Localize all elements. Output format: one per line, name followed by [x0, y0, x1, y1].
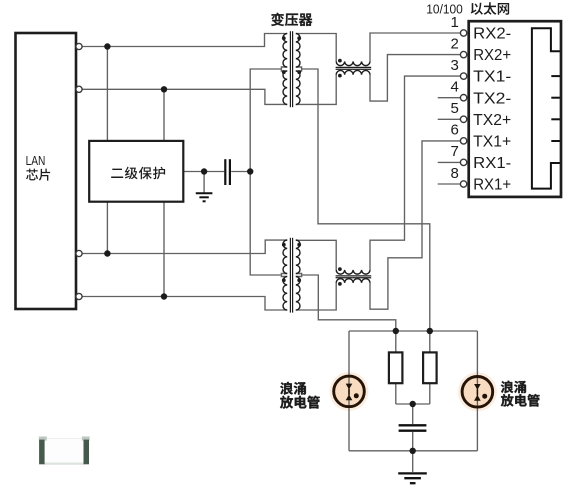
svg-text:2: 2 [450, 35, 458, 52]
svg-text:7: 7 [450, 143, 458, 160]
svg-text:4: 4 [450, 79, 458, 96]
svg-text:RX1+: RX1+ [473, 177, 511, 194]
svg-text:8: 8 [450, 165, 458, 182]
svg-text:RX2+: RX2+ [473, 47, 511, 64]
svg-text:LAN: LAN [26, 154, 46, 168]
svg-text:RX1-: RX1- [473, 155, 511, 172]
svg-text:TX1+: TX1+ [473, 134, 511, 151]
svg-text:3: 3 [450, 57, 458, 74]
svg-text:TX1-: TX1- [473, 69, 511, 86]
svg-text:5: 5 [450, 100, 458, 117]
svg-text:TX2+: TX2+ [473, 112, 511, 129]
svg-text:1: 1 [450, 14, 458, 31]
svg-text:RX2-: RX2- [473, 26, 511, 43]
svg-text:6: 6 [450, 122, 458, 139]
svg-text:TX2-: TX2- [473, 90, 511, 107]
